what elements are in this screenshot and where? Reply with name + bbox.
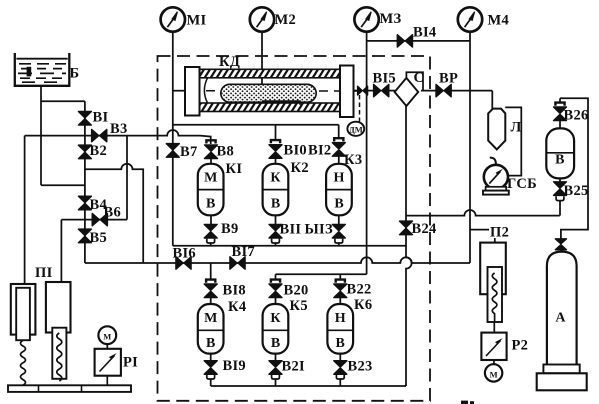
svg-text:М: М [103, 332, 111, 342]
svg-text:ВІ7: ВІ7 [232, 244, 255, 260]
svg-text:М2: М2 [275, 12, 297, 28]
svg-text:ВІ: ВІ [93, 110, 109, 126]
svg-text:А: А [555, 311, 566, 326]
svg-text:С: С [414, 70, 425, 86]
svg-text:В9: В9 [221, 221, 239, 237]
svg-text:В: В [334, 196, 343, 211]
svg-text:ВІІ: ВІІ [280, 222, 302, 238]
svg-text:В: В [271, 196, 280, 211]
svg-text:К2: К2 [291, 160, 309, 176]
svg-text:Н: Н [334, 171, 345, 186]
svg-text:М: М [490, 369, 498, 379]
svg-text:ВІ5: ВІ5 [373, 71, 396, 87]
svg-text:М: М [204, 171, 217, 186]
svg-text:ВІ8: ВІ8 [223, 283, 246, 299]
svg-text:ВР: ВР [439, 71, 458, 87]
svg-text:В: В [206, 336, 215, 351]
svg-text:В7: В7 [180, 144, 198, 160]
svg-text:К6: К6 [354, 297, 372, 313]
svg-text:П2: П2 [490, 225, 509, 241]
svg-text:ВІ9: ВІ9 [223, 358, 246, 374]
svg-text:К3: К3 [344, 152, 362, 168]
svg-text:ВІ6: ВІ6 [173, 246, 196, 262]
svg-text:В5: В5 [90, 230, 108, 246]
svg-text:В20: В20 [284, 283, 309, 299]
svg-text:ВІ0: ВІ0 [284, 143, 307, 159]
svg-text:КІ: КІ [226, 161, 243, 177]
svg-text:МЗ: МЗ [380, 11, 402, 27]
svg-text:В2: В2 [90, 143, 108, 159]
svg-text:В: В [271, 336, 280, 351]
svg-text:РІ: РІ [123, 355, 138, 371]
svg-text:В25: В25 [564, 183, 589, 199]
svg-text:ДМ: ДМ [349, 124, 363, 134]
svg-text:В: В [206, 196, 215, 211]
svg-text:В: В [555, 153, 564, 168]
svg-text:В3: В3 [110, 121, 128, 137]
svg-text:ПІ: ПІ [35, 265, 53, 281]
svg-text:МІ: МІ [187, 13, 207, 29]
svg-text:М: М [204, 311, 217, 326]
svg-text:В: В [336, 336, 345, 351]
svg-text:В22: В22 [347, 282, 372, 298]
svg-text:Р2: Р2 [512, 338, 529, 354]
svg-text:КД: КД [219, 54, 240, 70]
svg-text:Н: Н [335, 311, 346, 326]
svg-text:К: К [270, 171, 281, 186]
svg-text:ЫІЗ: ЫІЗ [305, 222, 333, 238]
svg-text:Л: Л [511, 120, 522, 136]
svg-text:М4: М4 [488, 13, 510, 29]
svg-text:ВІ2: ВІ2 [308, 143, 331, 159]
svg-text:В26: В26 [564, 108, 589, 124]
svg-text:К5: К5 [290, 298, 308, 314]
svg-text:Б: Б [70, 66, 80, 82]
svg-text:ГСБ: ГСБ [507, 176, 537, 192]
svg-text:К4: К4 [228, 299, 246, 315]
svg-text:В8: В8 [217, 144, 235, 160]
svg-text:В23: В23 [348, 359, 373, 375]
svg-text:В2І: В2І [282, 359, 306, 375]
svg-text:ВІ4: ВІ4 [413, 25, 436, 41]
svg-text:В24: В24 [412, 221, 437, 237]
svg-text:В6: В6 [104, 205, 122, 221]
svg-text:К: К [270, 311, 281, 326]
